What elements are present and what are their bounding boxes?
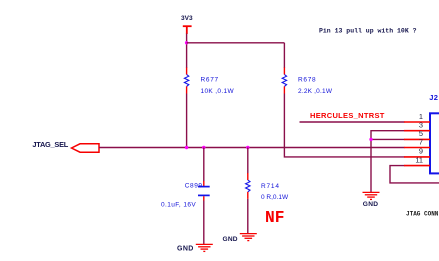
resistor R678	[282, 68, 286, 94]
wire pin 11 down and right	[390, 166, 439, 183]
svg-text:NF: NF	[265, 209, 284, 227]
wire JTAG_SEL main horizontal	[99, 147, 405, 149]
svg-text:7: 7	[419, 137, 423, 146]
wire R678 branch vertical	[283, 43, 285, 68]
svg-text:3: 3	[419, 121, 423, 130]
pin 1	[404, 121, 430, 123]
svg-text:3V3: 3V3	[181, 15, 193, 22]
wire main to C899	[203, 148, 205, 182]
svg-text:GND: GND	[177, 245, 194, 252]
svg-text:0 R,0.1W: 0 R,0.1W	[261, 194, 289, 201]
wire R678 down and right to pin 9	[284, 94, 404, 157]
svg-text:GND: GND	[363, 201, 379, 208]
svg-text:J2: J2	[429, 93, 438, 102]
svg-text:11: 11	[415, 155, 423, 164]
ground under R714	[240, 234, 257, 241]
off-page connector arrow shape	[72, 144, 100, 152]
svg-text:GND: GND	[223, 236, 238, 243]
pin 7	[404, 147, 430, 149]
pin 3	[404, 130, 430, 132]
wire HERCULES_NTRST to pin 1	[300, 121, 405, 123]
wire R714 to ground	[247, 199, 249, 233]
resistor R714	[246, 173, 250, 199]
svg-text:1: 1	[419, 112, 423, 121]
svg-text:JTAG_SEL: JTAG_SEL	[32, 140, 68, 149]
svg-text:R678: R678	[298, 76, 316, 83]
wire C899 to ground	[203, 201, 205, 245]
wire R677 to main wire	[186, 94, 188, 148]
svg-text:R714: R714	[261, 183, 280, 190]
svg-text:2.2K ,0.1W: 2.2K ,0.1W	[298, 88, 333, 95]
connector J2 body	[430, 113, 439, 173]
svg-text:HERCULES_NTRST: HERCULES_NTRST	[310, 111, 385, 120]
ground under C899	[196, 244, 213, 251]
pin 9	[404, 156, 430, 158]
node junction top	[185, 41, 188, 44]
pin 5	[404, 138, 430, 140]
wire pin 3 to ground branch	[371, 131, 405, 192]
svg-text:C899: C899	[185, 182, 203, 189]
svg-text:JTAG CONN: JTAG CONN	[406, 211, 439, 218]
ground right	[363, 192, 380, 199]
wire 3V3 to junction	[186, 34, 188, 69]
node junction pin5/ground branch	[369, 138, 372, 141]
svg-text:R677: R677	[201, 76, 219, 83]
pin 11	[404, 165, 430, 167]
power symbol 3V3	[183, 26, 192, 34]
svg-text:0.1uF, 16V: 0.1uF, 16V	[161, 201, 196, 208]
capacitor C899	[198, 181, 210, 201]
resistor R677	[184, 68, 188, 94]
svg-text:Pin 13 pull up with 10K ?: Pin 13 pull up with 10K ?	[319, 27, 417, 34]
wire pin 5	[371, 138, 405, 140]
svg-text:9: 9	[419, 147, 423, 156]
wire top horizontal to R678	[187, 42, 285, 44]
node junction R714/main	[246, 146, 249, 149]
node junction C899/main	[202, 146, 205, 149]
node junction R677/main	[185, 146, 188, 149]
wire main to R714	[247, 148, 249, 174]
svg-text:10K ,0.1W: 10K ,0.1W	[201, 88, 235, 95]
